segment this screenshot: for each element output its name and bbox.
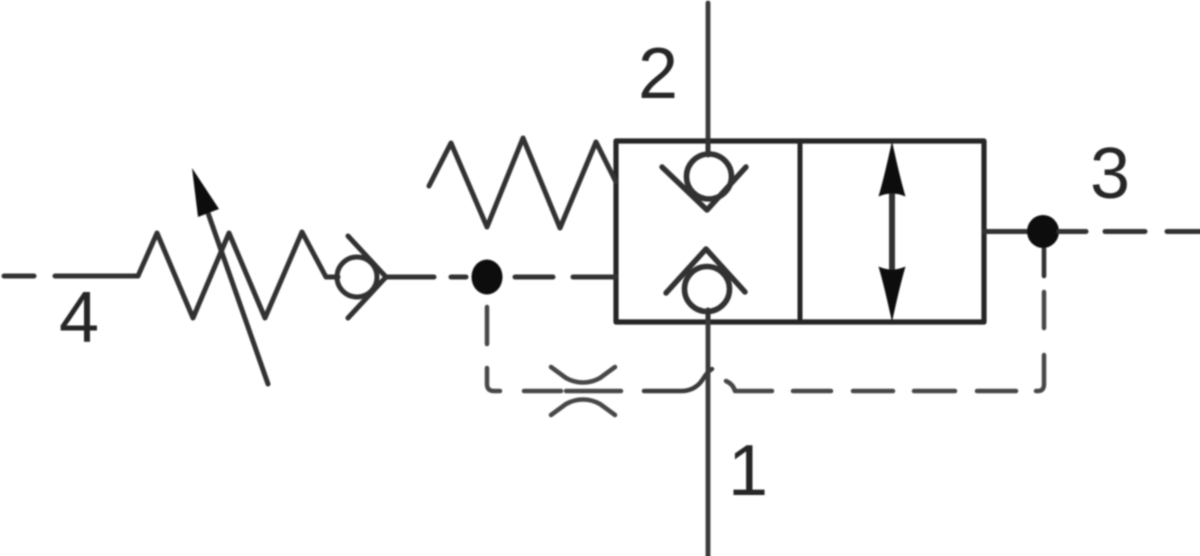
valve body box xyxy=(616,141,984,322)
two-way flow arrow shaft xyxy=(889,180,895,285)
orifice restrictor bottom arc xyxy=(551,400,615,416)
spring (pilot spring above box) xyxy=(429,138,616,228)
wire hop tail right xyxy=(726,381,772,391)
wire dash bottom run 5 xyxy=(977,389,1016,394)
check valve seat V1 (chevron down) xyxy=(662,167,746,210)
wire port 3 dash 3 xyxy=(1167,229,1200,234)
arrowhead down xyxy=(879,267,906,323)
node A (junction dot) xyxy=(472,260,503,295)
wire dash bottom run 4 xyxy=(914,389,955,394)
wire from pilot check valve xyxy=(386,275,434,280)
orifice restrictor top arc xyxy=(551,367,615,383)
wire port 4 solid lead xyxy=(55,274,138,279)
wire port 3 dash 2 xyxy=(1105,229,1145,234)
wire stub bottom check valve xyxy=(706,310,711,322)
wire dashed corner bottom left xyxy=(487,368,500,391)
wire dash bottom run 3 xyxy=(853,389,893,394)
wire port 4 dashed lead xyxy=(4,274,34,279)
check valve ball V2 (bottom, circle) xyxy=(685,267,730,312)
wire stub below node B xyxy=(1042,249,1047,276)
wire box to node B xyxy=(984,229,1028,234)
wire dash right of node B xyxy=(1059,229,1086,234)
arrowhead up xyxy=(879,141,906,197)
check valve ball V1 (top, circle) xyxy=(687,154,732,199)
check valve seat V2 (chevron up) xyxy=(666,249,745,293)
wire dash bottom run 2 xyxy=(793,389,831,394)
pilot check valve ball xyxy=(337,257,377,297)
wire to pilot check valve xyxy=(326,275,338,280)
svg-text:3: 3 xyxy=(1090,134,1130,214)
wire dash before node A xyxy=(451,275,466,280)
box divider xyxy=(798,141,803,322)
wire dashed corner bottom right xyxy=(1036,355,1044,391)
wire dash bottom run 1 xyxy=(524,389,561,394)
wire port 1 vertical line xyxy=(706,322,711,556)
svg-text:2: 2 xyxy=(638,34,678,114)
adjustment arrow shaft xyxy=(208,213,268,384)
node B (junction dot) xyxy=(1027,215,1059,248)
adjustable relief spring zigzag xyxy=(138,232,326,318)
wire dashed down from node A xyxy=(485,307,490,344)
pilot check valve seat (chevron right) xyxy=(348,236,386,318)
wire stub top check valve xyxy=(706,141,711,155)
wire dash through restrictor xyxy=(566,389,621,394)
wire dashed node A to box 2 xyxy=(573,275,616,280)
svg-text:1: 1 xyxy=(728,431,768,511)
wire port 2 vertical line xyxy=(706,3,711,141)
wire dashed node A to box xyxy=(515,275,553,280)
wire dash right vertical xyxy=(1042,292,1047,328)
wire dash then hop over port1 line xyxy=(644,369,712,391)
svg-text:4: 4 xyxy=(59,278,99,358)
adjustment arrowhead xyxy=(192,168,219,217)
